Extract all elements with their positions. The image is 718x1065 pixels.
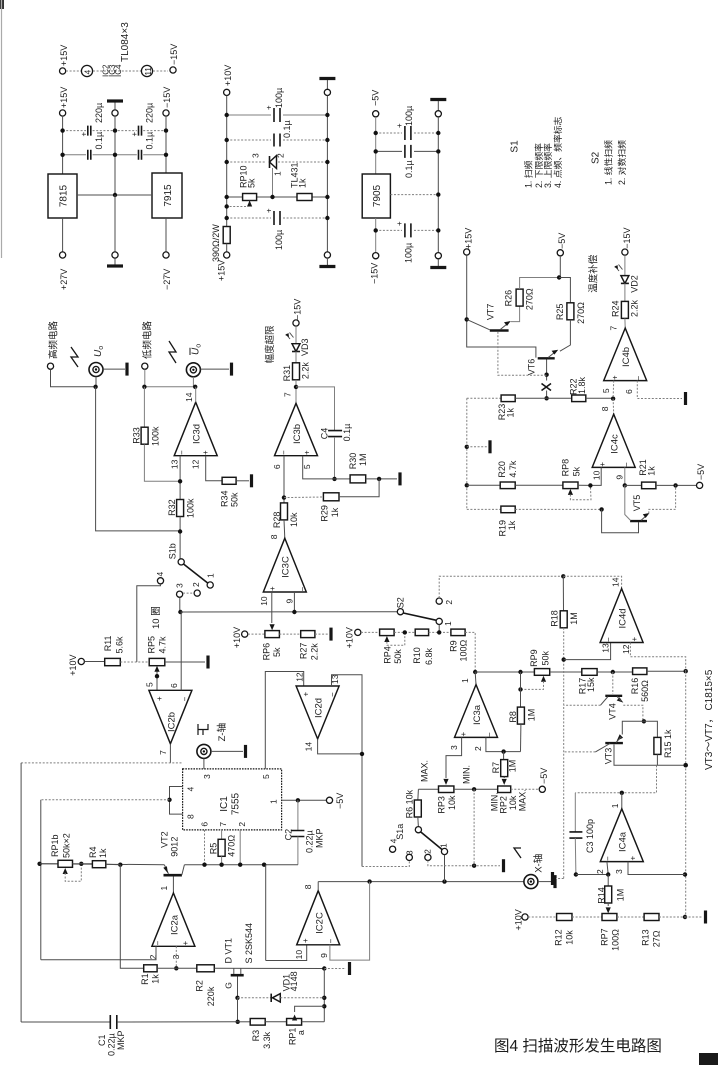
resistor R33 100k xyxy=(143,387,145,427)
svg-text:+: + xyxy=(302,692,311,697)
svg-text:低频电路: 低频电路 xyxy=(142,320,154,359)
ground at Uo xyxy=(103,368,125,370)
rail with 0.1u caps xyxy=(63,154,86,156)
op-amp IC3C xyxy=(263,538,306,592)
svg-text:−15V: −15V xyxy=(370,263,380,284)
potentiometer RP1a xyxy=(287,1019,302,1026)
svg-text:RP9: RP9 xyxy=(529,649,539,667)
svg-text:IC2d: IC2d xyxy=(314,698,325,718)
pin3 wire xyxy=(175,946,177,968)
svg-text:+: + xyxy=(201,450,210,455)
rail 1 with 100u xyxy=(376,132,402,134)
-5V terminal xyxy=(557,250,563,256)
svg-text:5: 5 xyxy=(261,774,271,779)
R23 rail xyxy=(467,397,501,399)
svg-text:12: 12 xyxy=(295,672,305,682)
svg-text:7: 7 xyxy=(158,750,168,755)
wire contact3 down to bus xyxy=(179,597,181,612)
pin10 lead xyxy=(590,467,601,485)
svg-text:+: + xyxy=(395,123,404,128)
svg-text:+: + xyxy=(130,132,139,137)
svg-text:4: 4 xyxy=(186,787,196,792)
svg-text:9: 9 xyxy=(285,599,295,604)
svg-text:S1: S1 xyxy=(510,140,521,153)
pin14 output wire xyxy=(318,739,362,754)
resistor R29 1k xyxy=(284,496,323,499)
node 低频电路 terminal xyxy=(142,363,148,369)
svg-text:幅度超限: 幅度超限 xyxy=(264,325,276,364)
VT2 base to IC2a output xyxy=(172,876,174,893)
svg-text:3: 3 xyxy=(405,850,415,855)
svg-text:+: + xyxy=(181,941,190,946)
svg-text:100µ: 100µ xyxy=(404,106,414,126)
BNC connector Uo-bar xyxy=(186,363,200,377)
svg-text:1M: 1M xyxy=(508,760,518,773)
S1a lever xyxy=(421,832,442,850)
svg-text:+: + xyxy=(301,938,310,943)
svg-text:0.1µ: 0.1µ xyxy=(282,120,292,138)
wire xyxy=(114,116,116,195)
wire pin5 xyxy=(303,456,335,479)
svg-text:8: 8 xyxy=(269,534,279,539)
svg-text:2: 2 xyxy=(422,849,432,854)
svg-text:图4 扫描波形发生电路图: 图4 扫描波形发生电路图 xyxy=(494,1037,662,1055)
wire xyxy=(93,70,141,72)
right vertical rail xyxy=(685,671,687,917)
svg-text:−: − xyxy=(604,856,613,861)
svg-text:0.1µ: 0.1µ xyxy=(404,160,414,178)
svg-text:MAX.: MAX. xyxy=(518,789,528,811)
BNC Z-axis xyxy=(197,744,211,758)
svg-text:VD2: VD2 xyxy=(630,275,640,293)
LED VD3 xyxy=(292,344,300,352)
svg-text:−: − xyxy=(327,939,336,944)
resistor R5 470ohm xyxy=(218,839,225,856)
svg-text:RP3: RP3 xyxy=(437,796,447,814)
svg-text:13: 13 xyxy=(600,643,610,653)
S1b lever xyxy=(184,564,209,583)
svg-text:1M: 1M xyxy=(616,889,626,902)
svg-text:−15V: −15V xyxy=(169,44,179,65)
svg-text:14: 14 xyxy=(304,742,314,752)
svg-text:R3: R3 xyxy=(251,1030,261,1042)
triangle waveform icon xyxy=(169,341,176,363)
svg-text:1M: 1M xyxy=(527,709,537,722)
pin2 path xyxy=(486,737,521,751)
ground at Uo-bar xyxy=(201,368,229,370)
pin6 pin7 pin2 wires to bus xyxy=(204,830,206,865)
svg-text:1k: 1k xyxy=(330,507,340,517)
op-amp IC2C xyxy=(297,891,340,945)
svg-text:8: 8 xyxy=(303,884,313,889)
svg-text:RP1b: RP1b xyxy=(50,834,60,857)
svg-text:10k: 10k xyxy=(508,795,518,810)
svg-text:IC3C: IC3C xyxy=(281,556,292,578)
page corner mark xyxy=(0,0,4,9)
capacitor C3 100p xyxy=(574,793,576,832)
svg-text:−27V: −27V xyxy=(162,269,172,290)
+15V terminal xyxy=(464,249,470,255)
BNC connector Uo xyxy=(89,363,103,377)
svg-text:4: 4 xyxy=(388,838,398,843)
svg-text:12: 12 xyxy=(191,459,201,469)
svg-text:−: − xyxy=(298,587,307,592)
left feedback vertical xyxy=(40,800,42,960)
svg-text:27Ω: 27Ω xyxy=(652,930,662,947)
svg-text:3. 上限频率: 3. 上限频率 xyxy=(542,143,553,188)
capacitor C4 0.1u xyxy=(328,431,342,437)
wire 高频 to junction xyxy=(51,369,96,386)
svg-text:C2: C2 xyxy=(284,829,294,841)
resistor R30 1M xyxy=(335,478,351,480)
svg-text:220µ: 220µ xyxy=(144,103,154,123)
svg-text:2: 2 xyxy=(444,600,454,605)
pin2 feedback loop xyxy=(41,946,156,959)
wire between regulators xyxy=(77,194,152,196)
resistor R4 1k xyxy=(92,861,105,868)
svg-text:R1: R1 xyxy=(140,973,150,985)
svg-text:RP8: RP8 xyxy=(561,459,571,477)
svg-text:X-轴: X-轴 xyxy=(533,854,545,873)
VT4 base lead xyxy=(612,672,614,694)
svg-text:5k: 5k xyxy=(572,466,582,476)
high-freq feedback wire xyxy=(96,387,181,531)
svg-text:−: − xyxy=(622,462,631,467)
svg-text:50k: 50k xyxy=(393,649,403,664)
svg-text:6.8k: 6.8k xyxy=(424,647,434,665)
svg-text:3: 3 xyxy=(449,745,459,750)
R1 line from bus xyxy=(120,865,143,969)
pin3 path to RP3 xyxy=(446,737,462,778)
rail with RP3/RP2 xyxy=(418,788,438,790)
svg-text:100µ: 100µ xyxy=(404,243,414,263)
sawtooth waveform icon xyxy=(71,347,78,367)
svg-text:1.8k: 1.8k xyxy=(577,376,587,394)
svg-text:+15V: +15V xyxy=(464,228,474,249)
svg-text:S1b: S1b xyxy=(168,543,178,559)
capacitor 220u #2 xyxy=(139,126,142,136)
wire contact4 to RP5 xyxy=(137,584,161,662)
svg-text:R14: R14 xyxy=(597,887,607,904)
main bus line xyxy=(40,863,165,866)
svg-text:1k: 1k xyxy=(507,520,517,530)
resistor R8 1M xyxy=(520,672,522,707)
op-amp IC4a xyxy=(600,809,643,862)
wire pin14 output xyxy=(195,387,197,402)
svg-text:7: 7 xyxy=(218,822,228,827)
S1a contact 4 xyxy=(390,846,396,852)
svg-text:−5V: −5V xyxy=(557,233,567,249)
svg-text:−: − xyxy=(485,732,494,737)
svg-text:3: 3 xyxy=(202,774,212,779)
VT4 collector dotted xyxy=(564,704,601,706)
resistor R34 50k xyxy=(222,477,236,484)
op-amp IC2a xyxy=(152,893,195,946)
pin9 feedback from X line xyxy=(330,882,370,961)
svg-text:VT3: VT3 xyxy=(604,748,614,765)
svg-text:1: 1 xyxy=(159,886,169,891)
svg-text:+: + xyxy=(598,462,607,467)
svg-text:R33: R33 xyxy=(132,427,142,444)
svg-text:+: + xyxy=(265,208,274,213)
svg-text:−5V: −5V xyxy=(371,90,381,106)
svg-text:R26: R26 xyxy=(504,290,514,307)
svg-text:10: 10 xyxy=(294,950,304,960)
svg-text:+: + xyxy=(395,221,404,226)
svg-text:R20: R20 xyxy=(497,461,507,478)
svg-text:12: 12 xyxy=(621,644,631,654)
svg-text:VD3: VD3 xyxy=(300,338,310,356)
svg-text:1: 1 xyxy=(439,843,449,848)
contact2 riser to IC4d path xyxy=(439,576,563,598)
-27V terminal xyxy=(165,218,167,252)
svg-text:270Ω: 270Ω xyxy=(576,302,586,324)
potentiometer RP1b 50kx2 xyxy=(40,863,58,865)
svg-text:5: 5 xyxy=(145,682,155,687)
bottom line with C1 R3 RP1 xyxy=(21,1021,110,1023)
svg-text:10: 10 xyxy=(259,596,269,606)
capacitor C1 0.22u MKP xyxy=(110,1015,117,1029)
R19 dotted rail xyxy=(467,508,501,510)
svg-text:7555: 7555 xyxy=(231,792,242,815)
right ground rail xyxy=(437,117,439,253)
svg-text:−: − xyxy=(604,637,613,642)
resistor R17 15k xyxy=(582,669,597,676)
svg-text:R32: R32 xyxy=(167,499,177,516)
wire xyxy=(165,116,167,173)
svg-text:270Ω: 270Ω xyxy=(525,288,535,310)
VT1 right node: ground xyxy=(322,966,326,970)
svg-text:4: 4 xyxy=(83,70,93,75)
+10V terminal bottom xyxy=(522,914,528,920)
S1b contact 1 xyxy=(207,582,213,588)
svg-text:5.6k: 5.6k xyxy=(115,636,125,654)
svg-text:R24: R24 xyxy=(611,300,621,317)
svg-text:R12: R12 xyxy=(554,929,564,946)
+10V output terminal xyxy=(224,89,230,95)
svg-text:6: 6 xyxy=(200,822,210,827)
potentiometer RP2 10k xyxy=(498,786,511,793)
svg-text:8: 8 xyxy=(600,406,610,411)
svg-text:IC4a: IC4a xyxy=(618,831,629,852)
svg-text:3: 3 xyxy=(251,153,261,158)
svg-text:R16: R16 xyxy=(630,678,640,695)
svg-text:1. 线性扫频: 1. 线性扫频 xyxy=(603,140,614,185)
svg-text:R25: R25 xyxy=(555,304,565,321)
rail 3 with 100u xyxy=(376,229,402,231)
svg-text:1: 1 xyxy=(460,678,470,683)
wire to S1a contact3 xyxy=(362,860,409,866)
svg-text:390Ω/2W: 390Ω/2W xyxy=(211,224,221,262)
RP3/RP2 tap riser xyxy=(473,789,475,865)
resistor R12 10k xyxy=(557,914,572,921)
resistor R20 4.7k xyxy=(500,482,515,489)
-5V output terminal xyxy=(373,111,379,117)
svg-text:S 2SK544: S 2SK544 xyxy=(244,923,254,964)
resistor R11 5.6k xyxy=(105,658,121,665)
resistor 390ohm/2W xyxy=(223,227,230,244)
resistor R7 1M xyxy=(503,752,505,761)
VT4 collector ground xyxy=(556,878,564,880)
wire pin12 to R34 xyxy=(206,456,223,481)
svg-text:−: − xyxy=(328,692,337,697)
resistor R15 1k xyxy=(644,721,658,738)
svg-text:+10V: +10V xyxy=(232,627,242,648)
R11 to RP5 xyxy=(120,661,149,663)
resistor R10 6.8k xyxy=(415,629,428,636)
svg-text:IC2a: IC2a xyxy=(170,914,181,935)
R18/VT4 long vertical xyxy=(563,628,565,879)
svg-text:MAX.: MAX. xyxy=(420,760,430,782)
rail with 220u caps xyxy=(63,130,86,132)
svg-text:1k: 1k xyxy=(506,407,516,417)
svg-text:R9: R9 xyxy=(449,640,459,652)
wire pin9 xyxy=(293,592,295,612)
pin5 wire up xyxy=(265,672,303,769)
svg-text:+10V: +10V xyxy=(68,655,78,676)
svg-text:RP6: RP6 xyxy=(262,643,272,661)
VT6 collector down xyxy=(546,360,548,381)
TL431 symbol xyxy=(270,156,277,169)
svg-text:R28: R28 xyxy=(272,512,282,529)
svg-text:S1a: S1a xyxy=(395,824,405,840)
svg-text:100µ: 100µ xyxy=(274,88,284,108)
svg-text:−5V: −5V xyxy=(696,464,706,480)
svg-text:IC4b: IC4b xyxy=(621,347,632,367)
svg-text:a: a xyxy=(296,1030,306,1035)
-15V terminal for VD3 xyxy=(293,320,299,326)
svg-text:3: 3 xyxy=(174,583,184,588)
svg-text:1: 1 xyxy=(269,799,279,804)
svg-text:−15V: −15V xyxy=(293,299,303,320)
svg-text:−5V: −5V xyxy=(539,768,549,784)
svg-text:50k×2: 50k×2 xyxy=(62,833,72,858)
svg-text:+: + xyxy=(155,696,164,701)
svg-text:1: 1 xyxy=(443,621,453,626)
op-amp IC3b xyxy=(275,403,318,455)
capacitor 0.1u xyxy=(405,145,411,158)
resistor R28 10k xyxy=(281,503,288,520)
ground bottom xyxy=(435,253,441,259)
svg-text:100k: 100k xyxy=(151,426,161,446)
potentiometer RP7 100ohm xyxy=(602,914,617,921)
rail 1 with 100u xyxy=(227,114,271,116)
op-amp IC4d xyxy=(600,589,643,643)
svg-text:VT3～VT7， C1815×5: VT3～VT7， C1815×5 xyxy=(704,669,715,770)
svg-text:R2: R2 xyxy=(195,980,205,992)
VT3 lower lead dotted xyxy=(564,751,596,753)
svg-text:4. 点频、频率标志: 4. 点频、频率标志 xyxy=(552,116,563,188)
svg-text:R6 10k: R6 10k xyxy=(405,789,415,818)
svg-text:1M: 1M xyxy=(358,453,368,466)
svg-text:11: 11 xyxy=(144,67,153,76)
+10V terminal R11 xyxy=(78,658,84,664)
svg-text:IC3b: IC3b xyxy=(292,424,303,444)
svg-text:100µ: 100µ xyxy=(274,230,284,250)
S1b contact 2 xyxy=(194,590,200,596)
svg-text:3: 3 xyxy=(614,869,624,874)
ground right bottom xyxy=(685,916,703,918)
capacitor 0.1u xyxy=(274,134,280,147)
S1a contact 2 xyxy=(425,854,431,860)
svg-text:R34: R34 xyxy=(220,490,230,507)
S2 contact 2 xyxy=(436,598,442,604)
svg-text:9012: 9012 xyxy=(170,837,180,857)
svg-text:50k: 50k xyxy=(541,650,551,665)
svg-text:R31: R31 xyxy=(282,365,292,382)
LED VD2 xyxy=(621,276,629,284)
svg-text:220µ: 220µ xyxy=(94,103,104,123)
svg-text:4148: 4148 xyxy=(289,971,299,991)
resistor R1 1k xyxy=(144,965,157,972)
svg-text:MIN.: MIN. xyxy=(461,765,471,784)
svg-text:+: + xyxy=(268,586,277,591)
node 高频电路 terminal xyxy=(47,363,53,369)
svg-text:4.7k: 4.7k xyxy=(158,636,168,654)
svg-text:1: 1 xyxy=(273,171,283,176)
svg-text:2: 2 xyxy=(237,822,247,827)
svg-text:+15V: +15V xyxy=(59,87,69,108)
svg-text:5: 5 xyxy=(601,388,611,393)
potentiometer RP5 4.7k 10-turn xyxy=(149,658,165,665)
svg-text:0.1µ: 0.1µ xyxy=(145,132,155,150)
svg-text:R10: R10 xyxy=(412,647,422,664)
svg-text:50k: 50k xyxy=(230,492,240,507)
+15V terminal (op-amp power) xyxy=(60,68,66,74)
svg-text:RP5: RP5 xyxy=(147,636,157,654)
svg-text:−: − xyxy=(181,697,190,702)
wire left rail xyxy=(226,96,228,227)
op-amp IC2b (points down) xyxy=(149,690,192,744)
svg-text:G: G xyxy=(224,982,234,989)
potentiometer RP3 10k xyxy=(439,786,454,793)
svg-text:IC4: IC4 xyxy=(114,64,123,77)
svg-text:R30: R30 xyxy=(348,453,358,470)
svg-text:RP4: RP4 xyxy=(383,646,393,664)
svg-text:7815: 7815 xyxy=(59,184,70,207)
resistor R24 2.2k xyxy=(621,301,628,318)
svg-text:−: − xyxy=(178,450,187,455)
contact2 to ground xyxy=(428,861,500,866)
svg-text:5k: 5k xyxy=(272,647,282,657)
wires at low freq junction xyxy=(144,369,146,386)
potentiometer RP4 50k xyxy=(380,629,395,636)
svg-text:6: 6 xyxy=(272,464,282,469)
wire to C4 xyxy=(296,387,335,430)
svg-text:1k: 1k xyxy=(151,974,161,984)
svg-text:+15V: +15V xyxy=(217,260,227,281)
rail 5 with 100u xyxy=(227,217,271,219)
resistor R23 1k xyxy=(501,395,515,402)
wire pin13 xyxy=(179,456,181,501)
svg-text:−: − xyxy=(154,941,163,946)
pin9 lead xyxy=(624,467,626,485)
rail 2 with 0.1u xyxy=(227,139,271,141)
svg-text:6: 6 xyxy=(624,389,634,394)
ground terminal top xyxy=(112,110,118,116)
svg-text:Z-轴: Z-轴 xyxy=(216,723,228,741)
svg-text:IC4c: IC4c xyxy=(610,434,621,454)
svg-text:2: 2 xyxy=(595,869,605,874)
capacitor 220u #1 xyxy=(88,126,91,136)
svg-text:R18: R18 xyxy=(550,610,560,627)
svg-text:100Ω: 100Ω xyxy=(611,929,621,951)
op-amp IC4b xyxy=(604,328,647,381)
S1b contact 3 xyxy=(177,591,183,597)
svg-text:+: + xyxy=(611,375,620,380)
svg-text:1: 1 xyxy=(206,573,216,578)
pin5 wire xyxy=(612,381,615,399)
